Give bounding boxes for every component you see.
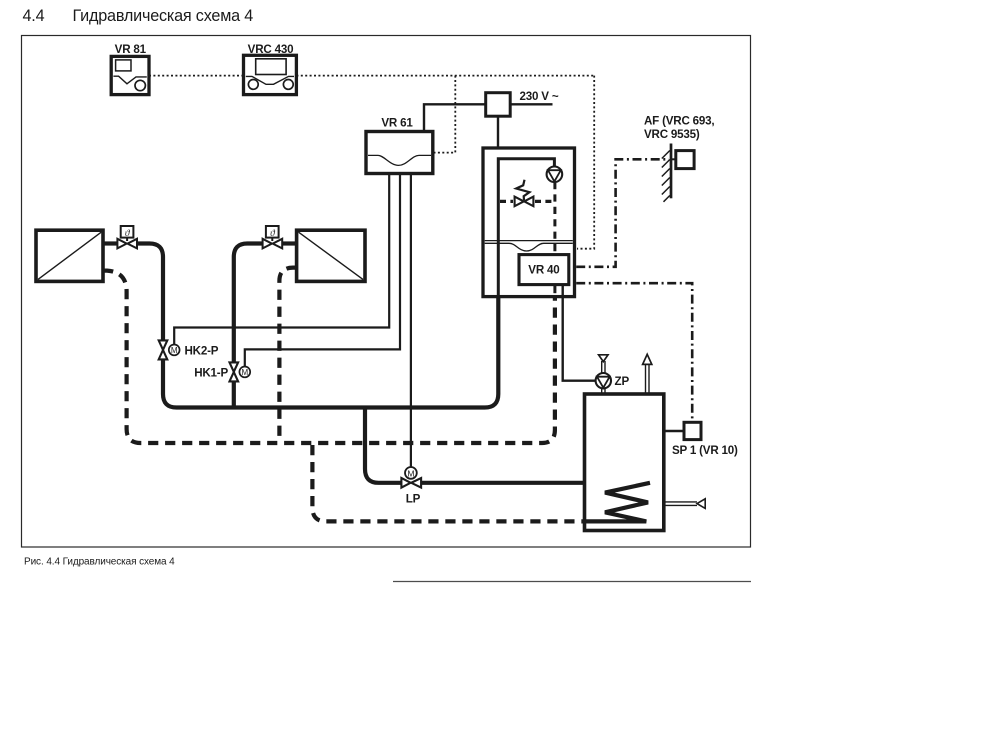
controller VRC 430 — [244, 43, 297, 95]
eBus dotted wire VR81-VRC430 — [149, 76, 594, 249]
motor M LP — [405, 467, 417, 479]
svg-text:ZP: ZP — [615, 375, 630, 388]
sensor link SP1 — [665, 430, 684, 433]
motor M HK2-P — [169, 345, 180, 356]
eBus dotted drop to VR61 — [434, 76, 456, 153]
return pipe tank (dashed) — [312, 445, 583, 521]
svg-text:Рис. 4.4 Гидравлическая схема: Рис. 4.4 Гидравлическая схема 4 — [24, 557, 175, 568]
svg-text:VR 61: VR 61 — [381, 117, 413, 130]
svg-text:AF (VRC 693,: AF (VRC 693, — [644, 114, 714, 127]
motor M HK1-P — [239, 367, 250, 378]
boiler body — [483, 148, 575, 297]
AF wall hatching — [662, 151, 670, 202]
flow pipe radiator 2 — [283, 241, 297, 245]
AF wall — [670, 144, 673, 199]
boiler internal flow pipe — [498, 159, 554, 296]
control wire VR61 to LP — [410, 174, 412, 468]
mixing valve HK2-P — [159, 340, 168, 359]
eBus dotted riser to boiler — [577, 76, 594, 249]
flow pipe LP to tank coil — [421, 481, 650, 485]
return pipe radiator 1 to boiler (dashed) — [103, 271, 555, 443]
ZP pump inlet stub — [601, 388, 603, 394]
boiler sensor wave line — [485, 240, 573, 242]
wire 230V right stub — [510, 103, 552, 105]
control wire VR61 to HK1-P — [245, 174, 400, 367]
svg-text:SP 1 (VR 10): SP 1 (VR 10) — [672, 444, 738, 457]
AF sensor connector — [671, 158, 676, 160]
pump ZP — [596, 373, 611, 388]
gas line (dashed) — [500, 200, 513, 203]
motorized valve LP — [401, 478, 421, 488]
radiator 2 — [297, 230, 365, 281]
eBus dotted wire VRC430 to riser — [296, 75, 594, 77]
dash-dot wire boiler to SP1 — [576, 283, 692, 421]
svg-text:LP: LP — [406, 493, 421, 506]
flow pipe radiator 1 — [103, 241, 117, 245]
svg-text:M: M — [241, 368, 248, 377]
boiler internal return (dashed) — [553, 182, 556, 254]
ZP outlet funnel — [599, 355, 608, 362]
controller VR 81 — [111, 43, 149, 95]
svg-text:HK2-P: HK2-P — [185, 344, 219, 357]
wire 230V to VR61 — [424, 104, 486, 131]
svg-text:M: M — [407, 468, 414, 478]
wire VR40 to ZP pump — [563, 285, 596, 381]
svg-text:230 V ~: 230 V ~ — [520, 90, 559, 103]
radiator 2 diagonal — [299, 232, 363, 279]
gas valve — [515, 197, 534, 207]
svg-text:VR 40: VR 40 — [528, 263, 559, 276]
AF outdoor sensor box — [676, 151, 694, 169]
svg-text:4.4: 4.4 — [23, 7, 45, 25]
mixer module VR 61 — [366, 117, 433, 174]
thermostatic valve radiator 1 — [117, 226, 137, 248]
230V junction box — [486, 93, 511, 117]
sensor SP 1 box — [684, 422, 701, 439]
wire 230V to boiler — [497, 116, 499, 147]
tank outlet arrow — [643, 354, 652, 364]
tank thermometer cone — [697, 499, 705, 509]
radiator 1 — [36, 230, 103, 281]
control wire VR61 to HK2-P — [174, 174, 389, 345]
svg-text:VR 81: VR 81 — [115, 43, 147, 56]
svg-text:Гидравлическая схема 4: Гидравлическая схема 4 — [73, 7, 254, 25]
tank coil — [583, 483, 650, 522]
module VR 40 — [519, 255, 569, 285]
radiator 1 diagonal — [38, 232, 101, 279]
mixing valve HK1-P — [230, 362, 239, 381]
diagram frame — [22, 36, 751, 548]
return pipe radiator 2 (dashed) — [279, 268, 296, 441]
svg-text:M: M — [171, 346, 178, 355]
ZP outlet pipe — [601, 361, 603, 373]
svg-text:HK1-P: HK1-P — [194, 366, 228, 379]
thermostatic valve radiator 2 — [263, 226, 283, 248]
svg-text:VRC 9535): VRC 9535) — [644, 128, 700, 141]
boiler pump — [547, 167, 563, 183]
flow pipe LP branch — [365, 408, 402, 483]
main flow pipe boiler to circuits — [163, 296, 498, 408]
flow pipe HK1 lower — [232, 381, 236, 407]
dash-dot wire boiler to AF — [576, 159, 669, 266]
bottom rule — [393, 581, 751, 583]
tank thermometer pipe — [665, 501, 697, 503]
storage tank — [585, 394, 664, 531]
tank outlet pipe — [645, 364, 647, 394]
burner flame zigzag — [516, 180, 529, 200]
